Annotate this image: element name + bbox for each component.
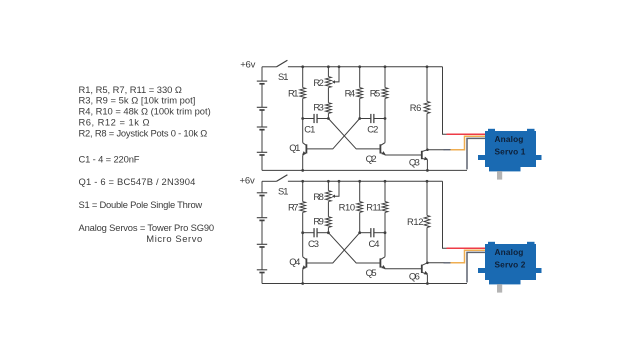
capacitor C4 — [360, 228, 385, 237]
svg-text:Servo 2: Servo 2 — [495, 260, 526, 270]
servo ground wire (grey, servo 1) — [467, 138, 485, 169]
capacitor C1 — [303, 114, 329, 123]
node: rail junctions — [301, 65, 304, 68]
resistor R4 — [357, 67, 363, 119]
wire: Q2 emitter to Q3 base — [385, 154, 422, 156]
servo signal wire from Q6 collector (orange) — [427, 262, 444, 264]
resistor R1 — [300, 67, 306, 119]
node: ground junctions — [301, 169, 304, 172]
svg-text:R2, R8 = Joystick Pots 0 - 10k: R2, R8 = Joystick Pots 0 - 10k Ω — [79, 127, 208, 138]
svg-text:Q6: Q6 — [409, 270, 420, 281]
svg-text:R1: R1 — [288, 87, 299, 98]
resistor R8 (pot) — [326, 181, 332, 201]
analog servo 1 (blue) — [478, 129, 542, 180]
wire: rail drop to servo red (circuit 2) — [443, 181, 448, 248]
servo signal wire from Q3 collector (orange) — [427, 149, 444, 151]
svg-text:R10: R10 — [339, 201, 356, 212]
servo ground wire (grey, servo 2) — [467, 252, 485, 282]
battery B2 — [257, 181, 267, 283]
svg-text:Analog Servos = Tower Pro SG90: Analog Servos = Tower Pro SG90 — [79, 222, 215, 233]
svg-text:R1, R5, R7, R11 = 330 Ω: R1, R5, R7, R11 = 330 Ω — [79, 84, 182, 95]
wire: cross-coupling C1 node to Q2 base — [328, 119, 380, 149]
svg-text:Analog: Analog — [495, 134, 524, 144]
svg-text:C3: C3 — [308, 238, 319, 249]
switch S1a — [276, 60, 287, 67]
node: rail junctions — [301, 180, 304, 183]
svg-text:R3: R3 — [313, 101, 324, 112]
svg-text:R12: R12 — [407, 216, 424, 227]
svg-text:S1 = Double Pole Single Throw: S1 = Double Pole Single Throw — [79, 199, 203, 210]
resistor R10 — [357, 181, 363, 232]
svg-text:R8: R8 — [313, 191, 324, 202]
node: ground junctions — [301, 282, 304, 285]
resistor R5 — [382, 67, 388, 143]
resistor R12 — [424, 181, 430, 262]
servo red wire (servo 1) — [447, 133, 486, 135]
transistor Q3 — [422, 150, 428, 161]
resistor R2 (pot) — [326, 67, 332, 88]
svg-text:Q2: Q2 — [366, 153, 377, 164]
svg-text:R11: R11 — [366, 201, 382, 212]
analog servo 2 (blue) — [478, 242, 542, 293]
wire: Q5 emitter to Q6 base — [385, 268, 422, 270]
transistor Q6 — [422, 263, 428, 275]
svg-text:Q1 - 6 = BC547B / 2N3904: Q1 - 6 = BC547B / 2N3904 — [79, 176, 196, 187]
resistor R11 — [382, 181, 388, 256]
wire: ground rail (circuit 1) — [262, 169, 467, 171]
wire battery to switch (circuit 1) — [262, 66, 276, 68]
svg-text:Servo 1: Servo 1 — [495, 147, 526, 157]
wire battery to switch (circuit 2) — [262, 180, 276, 182]
node: coupling row junctions — [301, 231, 304, 234]
capacitor C3 — [303, 228, 329, 237]
svg-text:R4: R4 — [345, 87, 356, 98]
svg-text:Micro Servo: Micro Servo — [146, 233, 202, 244]
svg-text:C1 - 4 = 220nF: C1 - 4 = 220nF — [79, 153, 140, 164]
svg-text:+6v: +6v — [240, 176, 255, 187]
resistor R3 — [326, 88, 332, 119]
parts list text block — [79, 84, 215, 244]
svg-text:S1: S1 — [278, 185, 289, 196]
wire: +6v top rail (circuit 1) — [288, 66, 443, 68]
svg-text:R3, R9 = 5k Ω [10k trim pot]: R3, R9 = 5k Ω [10k trim pot] — [79, 95, 196, 106]
capacitor C2 — [360, 114, 385, 123]
switch S1b — [276, 175, 287, 182]
svg-text:Analog: Analog — [495, 247, 524, 257]
battery B1 — [257, 67, 267, 171]
wire: +6v top rail (circuit 2) — [288, 180, 443, 182]
resistor R7 — [300, 181, 306, 232]
svg-text:S1: S1 — [278, 71, 289, 82]
svg-text:Q3: Q3 — [409, 157, 420, 168]
svg-text:C4: C4 — [369, 238, 380, 249]
pot wiper of R2 — [334, 67, 339, 82]
transistor Q1 — [302, 119, 304, 143]
svg-text:R9: R9 — [313, 215, 324, 226]
svg-text:C2: C2 — [367, 124, 378, 135]
node: Q6 collector — [426, 262, 429, 265]
resistor R9 — [326, 202, 332, 233]
wire: ground rail (circuit 2) — [262, 283, 467, 285]
transistor Q2 — [384, 142, 386, 144]
wire: rail drop to servo red (circuit 1) — [443, 67, 448, 134]
svg-text:Q1: Q1 — [289, 142, 300, 153]
svg-text:R2: R2 — [313, 77, 324, 88]
node: coupling row junctions — [301, 117, 304, 120]
transistor Q5 — [384, 256, 386, 258]
resistor R6 — [424, 67, 430, 150]
wire: cross-coupling C4 node to Q4 base — [306, 233, 359, 263]
servo red wire (servo 2) — [447, 247, 486, 249]
svg-text:R6, R12 = 1k Ω: R6, R12 = 1k Ω — [79, 116, 150, 127]
svg-text:R4, R10 = 48k Ω (100k trim pot: R4, R10 = 48k Ω (100k trim pot) — [79, 106, 211, 117]
transistor Q4 — [302, 233, 304, 257]
pot wiper of R8 — [334, 181, 339, 196]
svg-text:R6: R6 — [410, 102, 422, 113]
svg-text:R7: R7 — [288, 201, 299, 212]
svg-text:+6v: +6v — [240, 60, 255, 71]
svg-text:Q4: Q4 — [289, 256, 300, 267]
node: Q3 collector — [426, 148, 429, 151]
svg-text:C1: C1 — [304, 124, 315, 135]
wire: cross-coupling C2 node to Q1 base — [306, 119, 359, 149]
svg-text:R5: R5 — [370, 87, 381, 98]
svg-text:Q5: Q5 — [366, 267, 377, 278]
wire: cross-coupling C3 node to Q5 base — [328, 233, 380, 263]
